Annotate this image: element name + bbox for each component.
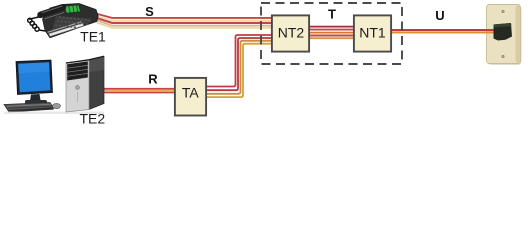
svg-text:TE2: TE2 (79, 111, 105, 127)
svg-text:R: R (148, 71, 158, 86)
body silhouette (43, 4, 99, 38)
svg-text:NT2: NT2 (278, 25, 305, 41)
wall plate (487, 5, 522, 66)
wire bundle TA to NT2 (206, 35, 271, 97)
keyboard (4, 103, 54, 111)
box NT1 (354, 15, 391, 51)
computer TE2: monitor (4, 60, 104, 114)
mouse (53, 103, 61, 108)
wall jack (494, 23, 513, 41)
svg-text:S: S (145, 4, 154, 19)
telephone TE1 (28, 4, 99, 38)
wire R bundle (TE2 to TA) (100, 89, 175, 93)
dashed demarcation box around NT2/NT1 (261, 3, 402, 64)
svg-text:T: T (328, 7, 336, 22)
wire U (NT1 to wall jack) (391, 30, 500, 32)
svg-text:NT1: NT1 (359, 25, 386, 41)
box TA (175, 78, 206, 116)
wire S bundle (TE1 to NT2) (92, 13, 271, 28)
computer TE2: tower (66, 56, 104, 112)
coiled cord (30, 17, 40, 20)
monitor stand (30, 94, 41, 101)
keypad texture (45, 13, 65, 19)
floor shadow (4, 112, 104, 115)
handset (41, 7, 64, 15)
box NT2 (272, 15, 309, 51)
front band highlight (48, 22, 82, 33)
svg-text:U: U (435, 8, 444, 23)
svg-text:TA: TA (182, 85, 200, 101)
svg-text:TE1: TE1 (80, 28, 106, 44)
light front band (49, 23, 84, 36)
wire T bundle (NT2 to NT1) (310, 27, 353, 39)
green display strip (64, 5, 80, 13)
